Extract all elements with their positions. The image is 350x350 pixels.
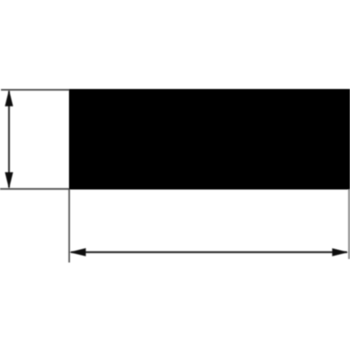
extension line left (vertical, below bottom-left corner of bar) (68, 190, 70, 263)
arrowhead width left (69, 248, 86, 256)
arrowhead height top (5, 90, 13, 106)
extension line right (vertical, gray, below bottom-right of bar) (348, 190, 350, 260)
arrowhead height bottom (5, 172, 13, 188)
dimension line width (horizontal, bottom) (71, 251, 347, 253)
extension line bottom (from left edge to bottom-left corner of bar) (0, 188, 69, 190)
extension line top (from left edge to top-left corner of bar) (1, 89, 69, 91)
flat bar cross-section (solid black rectangle) (69, 89, 350, 190)
dimension line height (vertical, left side) (8, 91, 10, 188)
arrowhead width right (332, 248, 348, 256)
